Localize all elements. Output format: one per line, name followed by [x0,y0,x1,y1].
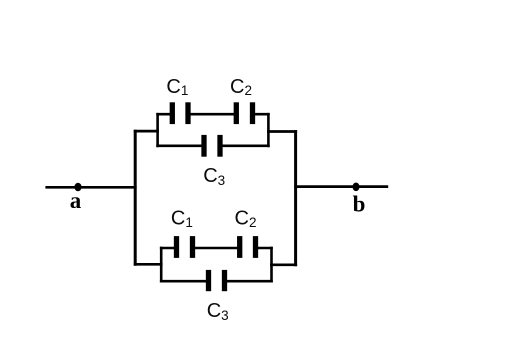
capacitor C3 (upper branch) [204,135,220,157]
wire: left bus (node a to both branches) [134,130,137,266]
wire: upper box right edge [267,113,270,147]
wire: lower box left edge [160,247,163,283]
wire: right bus (both branches to node b) [294,130,297,266]
wire: lower top rail, left segment [160,247,177,250]
wire: lower branch left link [134,263,163,266]
capacitor C1 (upper branch) [172,102,188,124]
wire: upper bottom rail, left segment [156,145,204,148]
wire: upper top rail, left segment [156,113,172,116]
wire: upper box left edge [156,113,159,147]
wire: lower top rail, middle segment (C1 to C2) [193,247,240,250]
wire: upper branch left link [134,130,159,133]
capacitor C1 (lower branch) [177,236,193,258]
wire: upper top rail, middle segment (C1 to C2) [188,113,236,116]
capacitor C2 (lower branch) [240,236,256,258]
wire: upper branch right link [267,130,297,133]
node b junction dot [353,183,360,192]
node a junction dot [74,183,81,192]
wire: lower branch right link [270,263,297,266]
wire: terminal a lead [45,186,136,189]
capacitor C2 (upper branch) [236,102,252,124]
wire: lower bottom rail, right segment [225,280,273,283]
svg-text:b: b [353,191,366,216]
wire: terminal b lead [294,185,388,188]
wire: lower top rail, right segment [256,247,273,250]
svg-text:a: a [70,188,82,213]
wire: upper top rail, right segment [253,113,270,116]
wire: lower bottom rail, left segment [160,280,209,283]
wire: lower box right edge [270,247,273,283]
capacitor C3 (lower branch) [209,270,225,291]
wire: upper bottom rail, right segment [220,145,270,148]
